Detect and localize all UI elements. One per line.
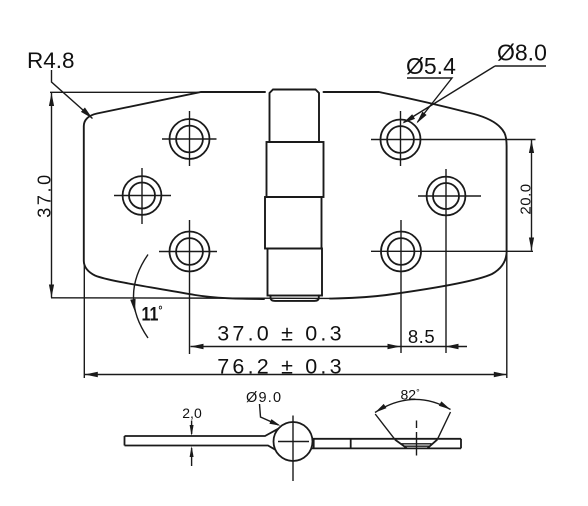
svg-text:76.2 ± 0.3: 76.2 ± 0.3: [217, 355, 344, 379]
svg-text:20.0: 20.0: [518, 183, 535, 214]
svg-text:R4.8: R4.8: [27, 48, 75, 73]
svg-text:Ø9.0: Ø9.0: [246, 390, 282, 406]
svg-text:Ø8.0: Ø8.0: [497, 40, 547, 66]
svg-text:37.0 ± 0.3: 37.0 ± 0.3: [217, 322, 344, 346]
svg-text:Ø5.4: Ø5.4: [406, 53, 456, 79]
svg-text:2,0: 2,0: [182, 405, 202, 421]
svg-text:8.5: 8.5: [408, 326, 435, 347]
svg-text:37.0: 37.0: [35, 172, 55, 217]
